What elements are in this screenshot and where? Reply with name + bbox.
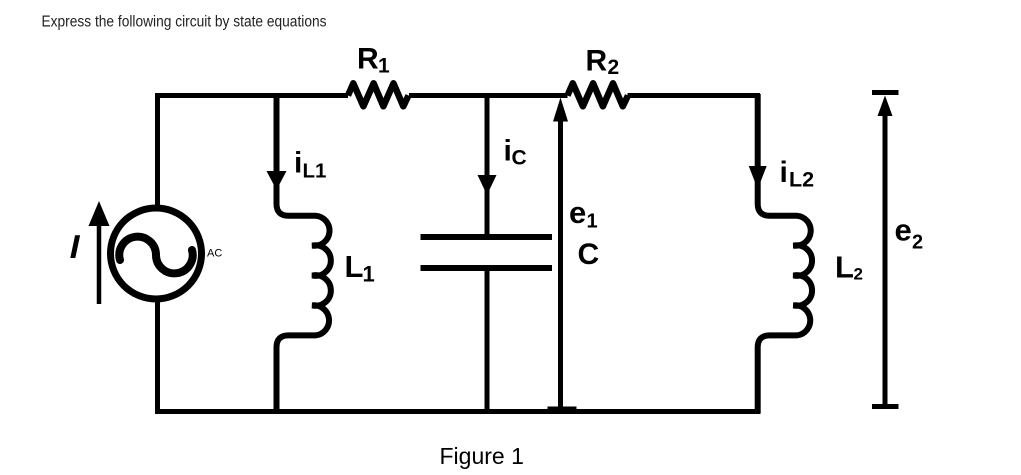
svg-text:R: R — [357, 43, 379, 76]
svg-text:2: 2 — [912, 232, 923, 254]
svg-text:C: C — [578, 238, 600, 271]
svg-text:2: 2 — [608, 56, 620, 79]
svg-text:AC: AC — [207, 247, 222, 259]
svg-text:C: C — [512, 147, 527, 170]
svg-text:L2: L2 — [789, 168, 814, 192]
svg-text:L: L — [835, 250, 854, 285]
svg-text:1: 1 — [587, 211, 598, 233]
svg-text:Figure 1: Figure 1 — [440, 443, 524, 469]
svg-text:R: R — [586, 45, 608, 78]
svg-text:1: 1 — [363, 262, 375, 287]
svg-text:Express the following circuit: Express the following circuit by state e… — [42, 14, 327, 31]
svg-text:e: e — [895, 213, 912, 248]
svg-text:L1: L1 — [303, 160, 327, 183]
svg-text:2: 2 — [854, 265, 863, 284]
svg-text:i: i — [294, 147, 302, 180]
svg-text:i: i — [780, 156, 788, 189]
svg-text:e: e — [569, 195, 586, 230]
svg-text:1: 1 — [378, 55, 390, 78]
svg-text:L: L — [345, 249, 364, 284]
